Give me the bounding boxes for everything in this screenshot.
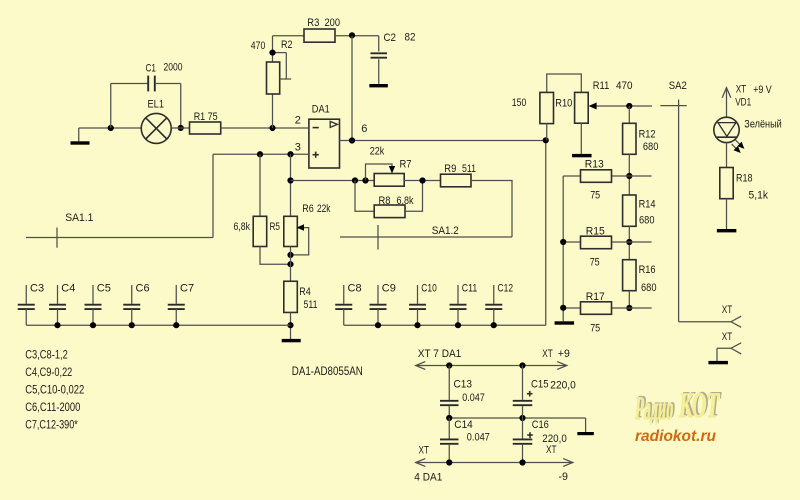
resistor R3 bbox=[304, 29, 335, 42]
svg-text:C7,C12-390*: C7,C12-390* bbox=[25, 417, 78, 431]
capacitor C14 bbox=[440, 418, 459, 463]
resistor 150 (R10 group) bbox=[540, 92, 554, 123]
power rail arrow XT7-DA1 to +9 bbox=[416, 362, 568, 370]
wire parallel bracket 150/R10 bbox=[547, 74, 582, 92]
svg-text:Радио: Радио bbox=[634, 391, 675, 427]
label C4 bbox=[61, 282, 75, 294]
capacitor C8 bbox=[335, 285, 352, 325]
svg-text:C10: C10 bbox=[421, 282, 437, 294]
node junction C7 on bus bbox=[173, 322, 179, 328]
capacitor C6 bbox=[123, 285, 140, 325]
svg-text:75: 75 bbox=[590, 190, 600, 202]
svg-text:XT: XT bbox=[722, 304, 733, 316]
label C8 bbox=[348, 282, 362, 294]
wire row4 contact stub bbox=[612, 307, 652, 309]
capacitor C10 bbox=[409, 285, 426, 325]
label XT (pin4 side) bbox=[419, 445, 430, 457]
node junction C10 on bus bbox=[414, 322, 420, 328]
connector XT (ground ref) bbox=[717, 343, 741, 361]
potentiometer R7 bbox=[374, 174, 404, 187]
resistor R15 bbox=[563, 236, 611, 249]
wire capacitor bus C8-C12 bbox=[344, 324, 546, 326]
node junction C14 top bbox=[446, 415, 452, 421]
svg-text:КОТ: КОТ bbox=[678, 385, 720, 425]
node junction C5 on bus bbox=[90, 322, 96, 328]
svg-text:22k: 22k bbox=[317, 203, 331, 215]
svg-text:470: 470 bbox=[616, 80, 633, 92]
node junction R15 left bbox=[560, 239, 566, 245]
svg-text:6,8k: 6,8k bbox=[234, 221, 251, 233]
label C13 0.047 bbox=[454, 379, 485, 405]
svg-text:C16: C16 bbox=[532, 419, 549, 431]
svg-text:R15: R15 bbox=[586, 226, 605, 238]
svg-text:6,8k: 6,8k bbox=[397, 195, 414, 207]
label R14 680 bbox=[639, 199, 656, 227]
svg-text:R9: R9 bbox=[444, 163, 456, 175]
wire feedback vertical to op-amp output bbox=[351, 36, 353, 141]
wire to R8 left bbox=[355, 181, 374, 212]
svg-text:R13: R13 bbox=[585, 158, 604, 170]
ground GND3 (R4) bbox=[282, 339, 301, 342]
ground GND5 (ladder) bbox=[555, 321, 575, 324]
svg-text:R12: R12 bbox=[639, 129, 656, 141]
node junction output / feedback bbox=[349, 137, 355, 143]
ground GND4 (R10) bbox=[572, 154, 592, 157]
svg-text:3: 3 bbox=[295, 142, 301, 154]
label Зелёный bbox=[744, 119, 782, 131]
node junction R5/R6 bottom bbox=[287, 261, 293, 267]
label XT (SA2 output) bbox=[722, 304, 733, 316]
label XT 7 DA1 bbox=[418, 348, 462, 360]
wire R4 to ground bus bbox=[290, 312, 292, 339]
svg-text:75: 75 bbox=[590, 257, 600, 269]
svg-text:radiokot.ru: radiokot.ru bbox=[635, 428, 717, 445]
svg-text:EL1: EL1 bbox=[148, 99, 165, 111]
wire mid rail to ground bbox=[449, 418, 585, 432]
wire row2 contact stub bbox=[612, 175, 652, 177]
node junction C6 on bus bbox=[129, 322, 135, 328]
svg-text:R3: R3 bbox=[307, 17, 319, 29]
label R16 680 bbox=[639, 264, 657, 294]
capacitor C4 bbox=[49, 285, 66, 325]
pin 2 label bbox=[295, 115, 301, 127]
wire R9 to SA1.2 bbox=[471, 181, 512, 238]
label DA1-AD8055AN bbox=[292, 364, 363, 378]
label XT +9 bbox=[542, 348, 570, 360]
label 470 R2 bbox=[251, 39, 293, 52]
op-amp DA1 bbox=[309, 119, 340, 168]
svg-text:XT: XT bbox=[722, 331, 733, 343]
svg-text:Зелёный: Зелёный bbox=[744, 119, 782, 131]
svg-text:4 DA1: 4 DA1 bbox=[414, 472, 442, 484]
wire R14 bottom to R16 top bbox=[628, 226, 630, 259]
label C2 82 bbox=[384, 32, 416, 45]
svg-text:R2: R2 bbox=[281, 39, 293, 51]
wire 150 bottom to output node bbox=[546, 124, 548, 141]
node junction R6 top bbox=[287, 151, 293, 157]
label R15 bbox=[586, 226, 605, 238]
ground GND6 (XT) bbox=[708, 361, 728, 364]
logo Radio KOT watermark bbox=[634, 383, 722, 427]
svg-text:SA2: SA2 bbox=[669, 80, 687, 92]
node junction C14 bottom bbox=[446, 459, 452, 465]
svg-text:C15: C15 bbox=[531, 379, 549, 391]
node junction C11 on bus bbox=[455, 322, 461, 328]
svg-text:C4: C4 bbox=[61, 282, 75, 294]
node junction C9 on bus bbox=[375, 322, 381, 328]
node junction R4 / C bus bbox=[287, 322, 293, 328]
wire op-amp output to right node bbox=[340, 140, 546, 142]
label C14 0.047 bbox=[454, 419, 490, 444]
label R7 bbox=[400, 159, 412, 171]
potentiometer R10 bbox=[575, 92, 589, 123]
svg-text:SA1.1: SA1.1 bbox=[65, 212, 93, 224]
label C11 bbox=[462, 282, 478, 294]
svg-text:150: 150 bbox=[512, 97, 527, 109]
label SA1.1 bbox=[65, 212, 93, 224]
ground GND2 (C2) bbox=[369, 84, 388, 87]
svg-text:R4: R4 bbox=[299, 286, 311, 298]
svg-text:XT: XT bbox=[546, 444, 557, 456]
svg-text:XT 7 DA1: XT 7 DA1 bbox=[418, 348, 462, 360]
resistor R14 bbox=[623, 195, 636, 226]
wire ground-to-lamp net bbox=[79, 128, 142, 141]
wire R1 to op-amp pin 2 bbox=[221, 127, 309, 129]
wire lamp to R1 bbox=[171, 127, 189, 129]
capacitor C7 bbox=[168, 285, 185, 325]
label C7 bbox=[180, 282, 194, 294]
label R12 680 bbox=[639, 129, 659, 154]
logo radiokot.ru bbox=[635, 428, 717, 445]
label 22k R7 bbox=[370, 146, 385, 158]
svg-text:+9 V: +9 V bbox=[753, 84, 772, 96]
label VD1 bbox=[735, 97, 751, 109]
svg-text:C6,C11-2000: C6,C11-2000 bbox=[25, 400, 80, 414]
svg-text:C7: C7 bbox=[180, 282, 194, 294]
svg-text:C6: C6 bbox=[136, 282, 150, 294]
svg-text:470: 470 bbox=[251, 40, 265, 52]
svg-text:0.047: 0.047 bbox=[467, 432, 490, 444]
svg-text:XT: XT bbox=[736, 84, 747, 96]
svg-text:R6: R6 bbox=[302, 203, 314, 215]
wire bus to output node (vertical) bbox=[545, 141, 547, 326]
node junction row3 bbox=[626, 239, 632, 245]
node junction row4 bbox=[626, 305, 632, 311]
power rail arrow XT4-DA1 to -9 bbox=[416, 459, 574, 467]
node junction pin3 branch to R7 bbox=[287, 177, 293, 183]
wire R8 right to R9 wire bbox=[405, 181, 423, 212]
svg-text:C13: C13 bbox=[454, 379, 473, 391]
label C6 bbox=[136, 282, 150, 294]
label R10 bbox=[555, 98, 572, 110]
capacitor C5 bbox=[85, 285, 102, 325]
svg-text:22k: 22k bbox=[370, 146, 385, 158]
label SA2 bbox=[669, 80, 687, 92]
resistor R8 bbox=[374, 205, 405, 218]
capacitor C11 bbox=[450, 285, 467, 325]
LED emission arrows bbox=[732, 140, 745, 153]
label C1 2000 bbox=[146, 62, 183, 75]
label 75 R13 bbox=[590, 190, 600, 202]
node junction C4 on bus bbox=[54, 322, 60, 328]
node junction lamp right / C1 right bbox=[178, 125, 184, 131]
label C10 bbox=[421, 282, 437, 294]
label -9 bbox=[559, 471, 569, 483]
svg-text:C5: C5 bbox=[97, 282, 111, 294]
wire LED to R18 bbox=[726, 143, 728, 168]
svg-text:DA1-AD8055AN: DA1-AD8055AN bbox=[292, 364, 363, 378]
capacitor C12 bbox=[485, 285, 502, 325]
wire R7 wiper loop bbox=[366, 164, 396, 181]
node junction C12 on bus bbox=[491, 322, 497, 328]
wire row3 contact stub bbox=[612, 241, 652, 243]
svg-text:SA1.2: SA1.2 bbox=[432, 225, 459, 237]
svg-text:C4,C9-0,22: C4,C9-0,22 bbox=[25, 365, 72, 379]
svg-text:6: 6 bbox=[361, 123, 367, 135]
resistor R5 bbox=[253, 154, 267, 246]
switch SA1.2 bbox=[340, 225, 512, 250]
svg-text:200: 200 bbox=[325, 17, 341, 29]
node junction at C1 left / lamp bbox=[108, 125, 114, 131]
svg-text:C3: C3 bbox=[30, 282, 44, 294]
svg-text:75: 75 bbox=[590, 323, 600, 335]
svg-text:511: 511 bbox=[304, 299, 318, 311]
svg-text:680: 680 bbox=[641, 282, 657, 294]
node junction C13 top bbox=[446, 362, 452, 368]
label 75 R17 bbox=[590, 323, 600, 335]
node junction C16 top bbox=[519, 415, 525, 421]
label R3 200 bbox=[307, 17, 340, 29]
svg-text:R5: R5 bbox=[270, 221, 281, 233]
svg-text:R16: R16 bbox=[639, 264, 656, 276]
svg-text:C1: C1 bbox=[146, 63, 157, 75]
label R13 bbox=[585, 158, 604, 170]
node junction row2 bbox=[626, 173, 632, 179]
resistor R4 bbox=[284, 281, 298, 312]
connector XT (SA2 output) bbox=[731, 316, 741, 327]
wire R6 node to R7 bbox=[291, 180, 375, 182]
svg-text:R14: R14 bbox=[639, 199, 656, 211]
svg-text:R17: R17 bbox=[586, 291, 605, 303]
label 75 R15 bbox=[590, 257, 600, 269]
svg-text:82: 82 bbox=[405, 32, 416, 44]
wire op-amp pin 3 net bbox=[213, 154, 309, 237]
resistor R9 bbox=[441, 174, 472, 187]
label 4 DA1 bbox=[414, 472, 442, 484]
wire R10 bottom to ground bbox=[580, 123, 582, 154]
svg-text:-9: -9 bbox=[559, 471, 569, 483]
label XT (-9 side) bbox=[546, 444, 557, 456]
svg-text:2000: 2000 bbox=[164, 62, 183, 74]
label 6,8k R5 bbox=[234, 221, 281, 233]
pin 3 label bbox=[295, 142, 301, 154]
node junction C15 top bbox=[519, 362, 525, 368]
svg-text:5,1k: 5,1k bbox=[749, 190, 769, 202]
node junction C16 bottom bbox=[519, 459, 525, 465]
label R9 511 bbox=[444, 163, 476, 175]
svg-text:+9: +9 bbox=[558, 348, 570, 360]
wire R18 to ground bbox=[726, 199, 728, 229]
resistor R12 bbox=[623, 106, 636, 154]
wire R10 wiper to SA2 contact bbox=[589, 103, 652, 110]
svg-text:C9: C9 bbox=[382, 282, 396, 294]
resistor R2 (trimmer) bbox=[267, 36, 292, 128]
connector XT +9V arrow bbox=[722, 88, 731, 118]
resistor R1 bbox=[190, 122, 221, 134]
svg-text:C12: C12 bbox=[498, 282, 514, 294]
svg-text:XT: XT bbox=[419, 445, 430, 457]
label C5 bbox=[97, 282, 111, 294]
svg-text:C5,C10-0,022: C5,C10-0,022 bbox=[25, 383, 84, 397]
svg-text:220,0: 220,0 bbox=[550, 380, 576, 392]
resistor R16 bbox=[623, 260, 636, 291]
svg-text:C3,C8-1,2: C3,C8-1,2 bbox=[25, 348, 68, 362]
capacitor value list bbox=[25, 348, 84, 432]
svg-text:R18: R18 bbox=[736, 172, 753, 184]
wire R16 bottom to row4 bbox=[628, 291, 630, 308]
capacitor C13 bbox=[440, 366, 459, 419]
label EL1 bbox=[148, 99, 165, 111]
svg-text:C2: C2 bbox=[384, 32, 397, 44]
label C15 220,0 bbox=[531, 379, 576, 392]
node junction R8 branch bbox=[352, 177, 358, 183]
capacitor C2 bbox=[371, 36, 388, 84]
svg-text:DA1: DA1 bbox=[312, 104, 330, 116]
label R1 75 bbox=[194, 111, 218, 123]
label R17 bbox=[586, 291, 605, 303]
node junction R12 top bbox=[626, 103, 632, 109]
resistor R17 bbox=[563, 302, 611, 315]
svg-text:R7: R7 bbox=[400, 159, 412, 171]
label R8 6,8k bbox=[379, 195, 414, 207]
node junction R3 / feedback / C2 bbox=[349, 32, 355, 38]
wire R5 bottom bbox=[260, 247, 291, 265]
node junction R17 left bbox=[560, 305, 566, 311]
wire R6 wiper to bottom bbox=[291, 224, 309, 255]
label DA1 bbox=[312, 104, 330, 116]
wire R7 to R9 bbox=[404, 180, 440, 182]
LED VD1 bbox=[714, 117, 739, 142]
ground GND8 (mid rail) bbox=[577, 432, 594, 435]
svg-text:680: 680 bbox=[639, 215, 655, 227]
label 150 bbox=[512, 97, 527, 109]
svg-text:R10: R10 bbox=[555, 98, 572, 110]
svg-text:R11: R11 bbox=[593, 80, 610, 92]
svg-text:511: 511 bbox=[462, 163, 476, 175]
node junction R8/R9 bbox=[419, 177, 425, 183]
resistor R6 (trimmer) bbox=[284, 154, 298, 246]
wire capacitor bus C3-C7 bbox=[26, 324, 290, 326]
label C9 bbox=[382, 282, 396, 294]
switch SA1.1 bbox=[26, 228, 213, 248]
node junction R7 wiper branch bbox=[362, 177, 368, 183]
ground GND7 (R18) bbox=[717, 229, 737, 232]
label R4 511 bbox=[299, 286, 317, 311]
svg-text:C14: C14 bbox=[454, 419, 473, 431]
label XT +9 V bbox=[736, 84, 773, 97]
svg-text:0.047: 0.047 bbox=[462, 392, 485, 404]
resistor R18 bbox=[720, 168, 733, 199]
svg-text:C8: C8 bbox=[348, 282, 362, 294]
svg-text:XT: XT bbox=[542, 348, 553, 360]
label R11 470 bbox=[593, 80, 633, 92]
label R18 5,1k bbox=[736, 172, 768, 201]
svg-text:VD1: VD1 bbox=[735, 97, 751, 109]
wire SA2 to XT connector bbox=[679, 321, 731, 323]
label C16 220,0 bbox=[532, 419, 567, 445]
capacitor C16 (electrolytic) bbox=[513, 418, 533, 463]
capacitor C1 bbox=[111, 76, 181, 128]
wire ladder left bus bbox=[562, 176, 564, 321]
wire R6 bottom to R4 bbox=[290, 247, 292, 282]
switch SA2 bbox=[660, 100, 686, 322]
svg-text:C11: C11 bbox=[462, 282, 478, 294]
capacitor C3 bbox=[18, 285, 35, 325]
node junction R2 top / wiper bbox=[269, 50, 275, 56]
pin 6 label bbox=[361, 123, 367, 135]
wire R2 top to R3 bbox=[273, 35, 305, 37]
capacitor C9 bbox=[370, 285, 387, 325]
node junction output / 150 resistor bbox=[543, 137, 549, 143]
node junction R6 wiper/bottom bbox=[287, 252, 293, 258]
resistor R13 bbox=[563, 170, 611, 183]
capacitor C15 (electrolytic) bbox=[513, 366, 533, 419]
label R6 22k bbox=[302, 203, 331, 215]
wire R3 to C2 node bbox=[335, 35, 379, 37]
wire R12 bottom to R14 top bbox=[628, 154, 630, 195]
node junction R2 bottom / pin2 wire bbox=[269, 125, 275, 131]
lamp EL1 bbox=[141, 113, 171, 143]
svg-text:R8: R8 bbox=[379, 195, 391, 207]
svg-text:2: 2 bbox=[295, 115, 301, 127]
label XT (ground ref) bbox=[722, 331, 733, 343]
label C3 bbox=[30, 282, 44, 294]
svg-text:R1 75: R1 75 bbox=[194, 111, 218, 123]
label SA1.2 bbox=[432, 225, 459, 237]
ground GND1 (left of EL1) bbox=[71, 141, 90, 144]
node junction R5 top bbox=[257, 151, 263, 157]
svg-text:680: 680 bbox=[643, 141, 659, 153]
label C12 bbox=[498, 282, 514, 294]
